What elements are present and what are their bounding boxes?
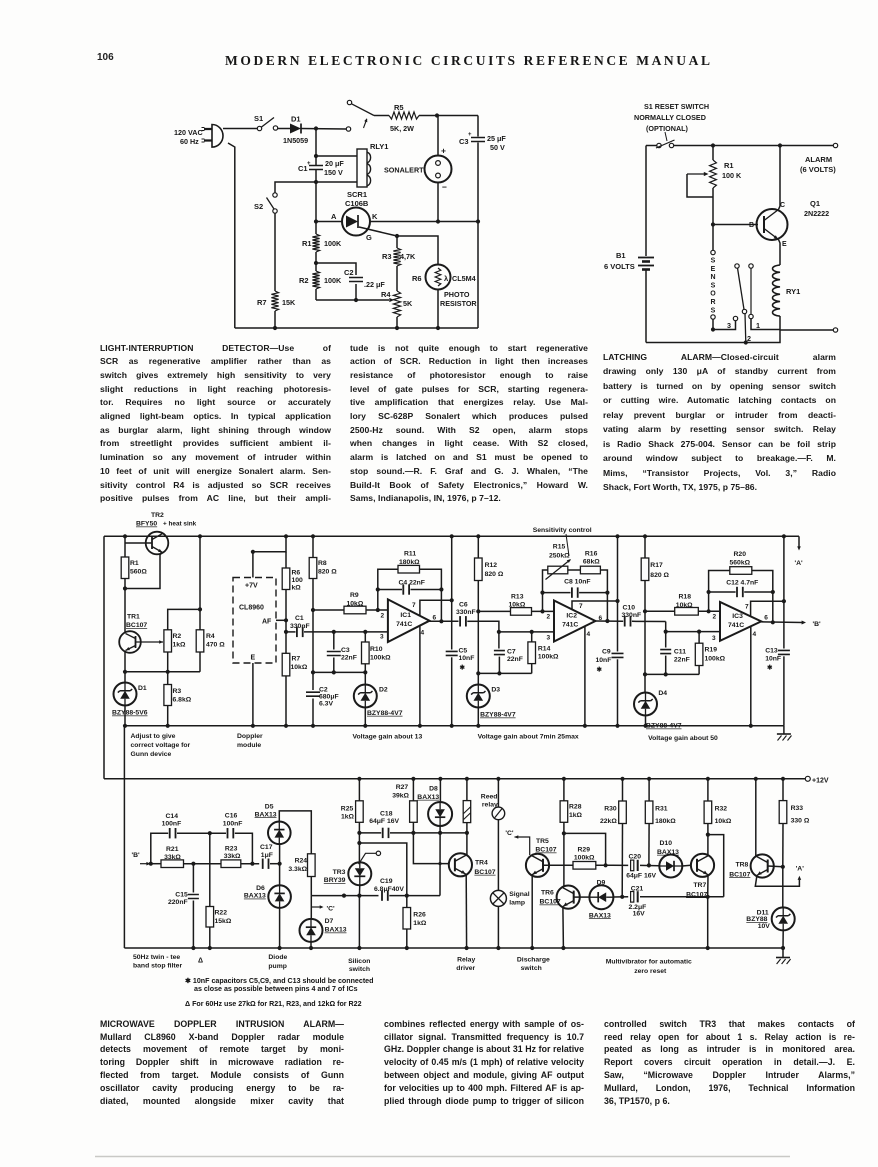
svg-text:1kΩ: 1kΩ [569,812,583,819]
relay contact arm 2 [735,264,739,268]
svg-text:'A': 'A' [796,866,805,873]
svg-text:+: + [441,146,446,156]
svg-text:10kΩ: 10kΩ [715,818,732,825]
svg-text:IC2: IC2 [566,613,577,620]
svg-text:C11: C11 [674,649,686,656]
svg-text:C2: C2 [344,268,354,277]
svg-text:4: 4 [753,631,757,638]
svg-text:D6: D6 [256,885,265,892]
svg-text:R20: R20 [734,551,747,558]
svg-text:Voltage gain about 13: Voltage gain about 13 [353,734,423,741]
svg-text:D3: D3 [491,687,500,694]
svg-text:S2: S2 [254,202,263,211]
TR2 emitter wire [125,552,162,589]
ground interconnect wire left [123,726,125,948]
svg-text:1kΩ: 1kΩ [173,642,187,649]
svg-text:C7: C7 [507,649,516,656]
svg-text:kΩ: kΩ [292,585,302,592]
svg-text:C12 4.7nF: C12 4.7nF [726,580,758,587]
svg-text:B1: B1 [616,251,626,260]
svg-text:5K: 5K [403,299,413,308]
svg-text:R21: R21 [166,846,179,853]
svg-text:C13: C13 [765,648,778,655]
svg-text:680μF: 680μF [319,694,339,701]
svg-text:R26: R26 [413,912,426,919]
TR3 gate wire and terminal [359,853,377,864]
output wire to terminal [780,329,833,331]
svg-text:correct voltage for: correct voltage for [131,742,191,749]
svg-text:Adjust to give: Adjust to give [131,733,176,740]
transistor TR7 BC107 [691,854,714,877]
node C output marker [311,906,321,908]
left rail wire [103,536,105,779]
wire gate node to R6 [397,236,438,265]
svg-text:5K, 2W: 5K, 2W [390,124,414,133]
svg-text:1kΩ: 1kΩ [341,813,355,820]
+12V rail wire [103,778,105,780]
svg-text:C14: C14 [166,813,179,820]
svg-text:50 V: 50 V [490,143,505,152]
C19 line wire [311,895,378,897]
svg-text:R9: R9 [350,592,359,599]
ground symbol lower right [782,948,784,958]
pin3 wire [499,631,554,633]
svg-text:3: 3 [727,321,731,330]
transistor TR5 BC107 [526,854,549,877]
svg-text:R15: R15 [553,544,566,551]
signal lamp [490,890,506,906]
svg-text:R3: R3 [173,688,182,695]
svg-text:(OPTIONAL): (OPTIONAL) [646,124,689,133]
R2 top wire [168,609,200,629]
svg-text:R12: R12 [485,562,498,569]
capacitor C18 64uF 16V [359,832,381,834]
svg-text:band stop filter: band stop filter [133,963,182,970]
C20 line wire [612,864,628,866]
wire S1 to D1 [278,128,291,130]
capacitor C2 .22uF [316,263,356,275]
svg-text:470 Ω: 470 Ω [206,642,225,649]
svg-text:TR5: TR5 [536,838,549,845]
TR5 emitter wire [531,875,533,948]
svg-text:C6: C6 [459,602,468,609]
node A marker arrow [798,536,800,546]
svg-text:741C: 741C [562,622,578,629]
TR3 cathode wire [358,885,360,948]
capacitor C10 330nF [624,616,626,626]
svg-text:R16: R16 [585,551,598,558]
IC2 output wire [595,620,623,622]
capacitor C17 1uF [262,859,264,869]
svg-text:C106B: C106B [345,199,369,208]
reed relay coil [466,779,468,801]
feedback capacitor C8 10nF [543,592,571,594]
svg-text:PHOTO: PHOTO [444,290,470,299]
svg-text:C3: C3 [341,647,350,654]
svg-text:Gunn device: Gunn device [131,751,172,758]
SCR gate wire [359,227,397,236]
svg-text:C4 22nF: C4 22nF [399,580,425,587]
bottom text column 2 [384,1018,584,1031]
feedback resistor R20 560k [709,571,730,612]
terminal +12V [805,776,810,781]
svg-text:RY1: RY1 [786,287,800,296]
svg-text:22nF: 22nF [507,656,523,663]
svg-text:CL8960: CL8960 [239,605,264,612]
svg-text:64μF 16V: 64μF 16V [369,818,399,825]
TR3 anode wire [358,843,360,862]
doppler module CL8960 dashed box [233,578,276,664]
svg-text:15kΩ: 15kΩ [215,918,232,925]
svg-text:R32: R32 [715,806,728,813]
svg-text:C8 10nF: C8 10nF [564,579,590,586]
svg-text:Q1: Q1 [810,199,820,208]
svg-text:BC107: BC107 [535,847,556,854]
svg-text:6.3V: 6.3V [319,701,333,708]
svg-text:100kΩ: 100kΩ [538,654,559,661]
resistor R32 10k [707,779,709,801]
resistor R2 100K [312,271,319,289]
transistor TR8 BC107 [751,854,774,877]
svg-text:+: + [468,132,472,138]
svg-text:1N5059: 1N5059 [283,136,308,145]
svg-text:330nF: 330nF [622,612,642,619]
+12V top rail wire [104,535,799,537]
text column 2 [350,342,588,356]
switch S1 normally closed [657,143,661,147]
svg-text:BC107: BC107 [729,871,750,878]
svg-text:(6 VOLTS): (6 VOLTS) [800,165,836,174]
diode D10 BAX13 [659,855,682,878]
IC3 pin4 wire [750,627,752,726]
svg-text:R23: R23 [225,846,238,853]
resistor R27 39k [412,779,414,801]
main horizontal wire anode line [316,221,342,223]
svg-text:R13: R13 [511,594,524,601]
svg-text:100nF: 100nF [223,821,243,828]
svg-text:pump: pump [268,963,287,970]
ground symbol upper right [783,726,785,734]
potentiometer R15 250k [543,570,548,611]
svg-text:22kΩ: 22kΩ [600,818,617,825]
resistor R9 10k [313,609,344,611]
svg-text:100K: 100K [324,276,342,285]
svg-text:820 Ω: 820 Ω [485,571,504,578]
svg-text:1kΩ: 1kΩ [413,920,427,927]
capacitor C1 20uF 150V [309,166,323,170]
svg-text:'B': 'B' [813,621,822,628]
svg-text:+12V: +12V [812,778,829,785]
contact actuate arrow [364,119,367,128]
wire S2 top to C1 node [275,182,316,193]
junction dot base line [438,862,441,865]
stage2 bias wire [478,672,531,674]
svg-text:820 Ω: 820 Ω [318,569,337,576]
svg-text:TR1: TR1 [127,614,140,621]
svg-text:C3: C3 [459,137,469,146]
svg-text:R: R [710,299,715,306]
capacitor C14 100nF [151,833,168,864]
svg-text:TR8: TR8 [736,861,749,868]
svg-text:100kΩ: 100kΩ [574,855,595,862]
page number [97,52,114,63]
svg-text:C18: C18 [380,811,393,818]
bottom rail wire [235,327,478,329]
bottom rail wire [646,330,780,343]
svg-text:180kΩ: 180kΩ [399,559,420,566]
resistor R1 560 [124,536,126,557]
diode D7 BAX13 [310,896,312,919]
capacitor C15 220nF [192,864,194,893]
svg-text:E: E [251,655,256,662]
op-amp IC2 741C [554,601,595,642]
svg-text:NORMALLY CLOSED: NORMALLY CLOSED [634,113,706,122]
svg-text:'A': 'A' [795,560,804,567]
capacitor C11 22nF [665,632,667,648]
svg-text:6: 6 [433,615,437,622]
svg-text:D9: D9 [597,879,606,886]
svg-text:C10: C10 [623,605,636,612]
svg-text:BC107: BC107 [686,891,707,898]
resistor R7 10k [285,632,287,653]
svg-text:330nF: 330nF [456,609,476,616]
svg-text:TR3: TR3 [333,869,346,876]
svg-text:7: 7 [745,604,749,611]
capacitor C3 22nF [333,632,335,650]
IC1 pin7 wire [420,600,452,616]
page bottom scan edge [95,1156,790,1158]
resistor R3 6.8k [167,672,169,685]
capacitor C2 680uF 6.3V [312,672,314,690]
svg-text:39kΩ: 39kΩ [392,792,409,799]
capacitor C7 22nF [498,632,500,649]
svg-text:R8: R8 [318,560,327,567]
wire R6 to AF node [285,590,287,621]
resistor R18 10k pin2 wire [645,610,675,612]
svg-text:BAX13: BAX13 [325,927,347,934]
AC plug P1 [212,125,223,148]
svg-text:S: S [711,307,716,314]
module +7V wire [253,536,286,577]
svg-text:R7: R7 [257,298,267,307]
svg-text:C2: C2 [319,687,328,694]
TR6 base wire [574,896,590,898]
resistor R31 180k [648,779,650,801]
top rail wire [646,145,657,147]
svg-text:D4: D4 [658,690,667,697]
reed switch [497,779,499,807]
svg-text:16V: 16V [633,910,646,917]
svg-text:Reed: Reed [481,794,498,801]
svg-text:Relay: Relay [457,957,475,964]
TR5 base wire [543,864,573,866]
svg-text:50Hz twin - tee: 50Hz twin - tee [133,954,180,961]
svg-text:AF: AF [262,619,272,626]
svg-text:Multivibrator for automatic: Multivibrator for automatic [606,959,692,966]
resistor R10 100k [364,632,366,642]
svg-text:BAX13: BAX13 [589,912,611,919]
TR8 emitter wire to A marker [755,876,799,887]
svg-text:Voltage gain about 7min 25max: Voltage gain about 7min 25max [478,734,579,741]
svg-text:820 Ω: 820 Ω [650,572,669,579]
IC1 pin4 wire [419,626,421,726]
svg-text:B: B [749,222,754,229]
svg-text:741C: 741C [396,621,412,628]
wire AF to C1 node [285,620,287,632]
resistor R8 820 [312,536,314,557]
TR8 base wire [768,865,783,868]
svg-text:R24: R24 [295,857,308,864]
resistor R30 22k [622,779,624,801]
svg-text:R18: R18 [679,594,692,601]
op-amp IC3 741C [720,602,761,641]
SCR1 C106B [342,208,370,236]
bottom text column 3 [604,1018,855,1031]
left return wire from plug [228,143,235,328]
svg-text:100: 100 [292,577,304,584]
diode D9 BAX13 [589,885,613,909]
svg-text:R3: R3 [382,252,392,261]
svg-text:R1: R1 [130,560,139,567]
relay contact 1 [749,264,753,268]
resistor R5 5K 2W [374,115,389,117]
svg-text:C21: C21 [631,885,644,892]
sonalert SP1 [425,156,452,183]
anode link wire [359,843,406,896]
svg-text:+7V: +7V [245,583,258,590]
svg-text:BRY39: BRY39 [324,877,346,884]
transistor TR6 BC107 [557,886,580,909]
svg-text:BC107: BC107 [126,622,147,629]
svg-text:D2: D2 [379,687,388,694]
feedback capacitor C4 22nF [378,589,402,591]
diode D8 BAX13 [439,779,441,802]
svg-text:+ heat sink: + heat sink [163,521,197,528]
svg-text:100kΩ: 100kΩ [705,656,726,663]
potentiometer R1 100K [712,146,714,161]
svg-text:K: K [372,212,378,221]
svg-text:A: A [331,212,337,221]
resistor R26 1k [406,896,408,908]
wire D1 node down thru C1 [315,129,317,166]
wire to TR1 collector [124,589,126,633]
resistor R19 100k [698,632,700,644]
diode D5 BAX13 [279,844,281,864]
svg-text:6: 6 [764,615,768,622]
svg-text:D10: D10 [660,840,673,847]
svg-text:BFY50: BFY50 [136,521,157,528]
svg-text:4: 4 [421,630,425,637]
svg-text:2: 2 [747,334,751,343]
light-interruption detector schematic [174,100,506,330]
resistor R29 100k [573,862,596,870]
sensors wire and terminals [712,225,714,251]
svg-text:150 V: 150 V [324,168,343,177]
stage3 bias wire [645,673,699,675]
svg-text:33kΩ: 33kΩ [164,854,181,861]
wire S2 bottom to R7 [274,213,276,291]
svg-text:R30: R30 [604,806,617,813]
TR2 base wire [125,542,152,544]
svg-text:Voltage gain about 50: Voltage gain about 50 [648,735,718,742]
svg-text:15K: 15K [282,298,296,307]
transistor Q1 2N2222 [757,209,788,240]
svg-text:switch: switch [349,966,370,973]
svg-text:switch: switch [521,965,542,972]
svg-text:10nF: 10nF [596,657,612,664]
svg-text:560Ω: 560Ω [130,569,147,576]
left rail wire [645,146,647,257]
svg-text:O: O [710,291,716,298]
svg-text:D5: D5 [265,803,274,810]
svg-text:3: 3 [380,634,384,641]
TR7 emitter wire [707,875,709,948]
svg-text:−: − [442,182,447,192]
text column 1: light-interruption detector [100,342,331,356]
svg-text:R4: R4 [206,633,215,640]
svg-text:33kΩ: 33kΩ [224,853,241,860]
svg-text:100K: 100K [324,239,342,248]
TR8 collector wire [755,779,757,857]
svg-text:10kΩ: 10kΩ [676,602,693,609]
diode D1 1N5059 [290,124,301,134]
capacitor C6 330nF [459,616,461,626]
switch S2 [273,193,277,197]
svg-text:Doppler: Doppler [237,733,263,740]
svg-text:10kΩ: 10kΩ [509,602,526,609]
resistor R33 330 [782,779,784,801]
resistor R3 4.7K [396,236,398,248]
relay contact terminal lower [346,127,350,131]
terminal alarm top [833,143,837,147]
capacitor C19 6.8uF 40V [381,890,383,900]
svg-text:22nF: 22nF [674,657,690,664]
svg-text:60 Hz: 60 Hz [180,137,199,146]
svg-text:λ: λ [444,274,449,283]
capacitor C3 25uF 50V [471,138,485,142]
svg-text:R14: R14 [538,646,551,653]
base wire to Q1 [713,224,758,226]
svg-text:Silicon: Silicon [348,958,370,965]
latching alarm schematic [604,102,838,345]
bottom text column 1: microwave doppler intrusion alarm [100,1018,344,1031]
svg-text:S: S [711,282,716,289]
svg-text:D1: D1 [291,115,301,124]
R29 riser wire to R28 [564,833,606,865]
battery B1 6 volts [638,257,654,259]
svg-text:BAX13: BAX13 [657,849,679,856]
capacitor C9 10nF [612,653,624,657]
svg-text:Sensitivity control: Sensitivity control [533,527,592,534]
resistor R14 100k [531,632,533,642]
svg-text:100kΩ: 100kΩ [370,655,391,662]
IC1 output wire [430,620,459,622]
svg-text:Δ: Δ [198,958,203,965]
svg-text:100nF: 100nF [162,821,182,828]
svg-text:BC107: BC107 [540,899,561,906]
svg-text:220nF: 220nF [168,899,188,906]
svg-text:C15: C15 [175,892,188,899]
microwave doppler alarm schematic upper half [104,512,803,779]
zener D1 BZY88-5V6 [124,672,126,683]
resistor R6 100k [285,552,287,568]
svg-text:R11: R11 [404,551,416,558]
svg-text:Signal: Signal [509,891,530,898]
svg-text:TR2: TR2 [151,512,164,519]
svg-text:zero reset: zero reset [634,968,667,975]
R8 lower wire [312,579,314,611]
svg-text:BZY88-4V7: BZY88-4V7 [480,712,516,719]
